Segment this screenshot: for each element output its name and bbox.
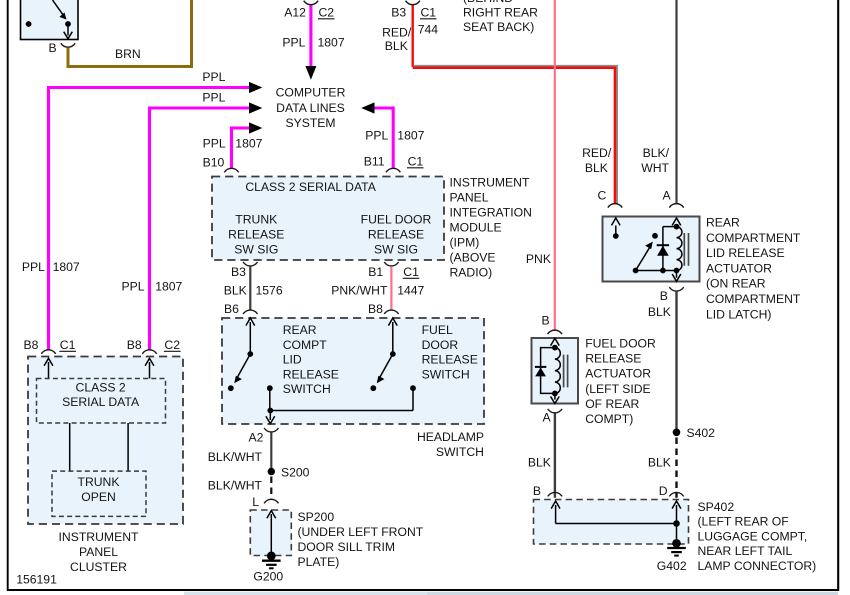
svg-text:(UNDER LEFT FRONT: (UNDER LEFT FRONT [298, 525, 424, 539]
svg-text:DOOR: DOOR [422, 338, 459, 352]
label RED/BLK (near pin C) [582, 146, 612, 175]
svg-text:RIGHT REAR: RIGHT REAR [463, 6, 538, 20]
connector bump B3 (IPM bottom) [243, 262, 257, 266]
svg-text:SWITCH: SWITCH [283, 382, 331, 396]
scrollbar strip bottom [184, 592, 838, 595]
fuel actuator input arrow [551, 338, 560, 347]
svg-text:B8: B8 [24, 338, 39, 352]
svg-text:LID: LID [283, 353, 302, 367]
svg-text:PPL: PPL [202, 70, 225, 84]
label SP200 (UNDER LEFT FRONT DOOR SILL TRIM PLATE) [298, 510, 424, 569]
wire from rear switch output [269, 388, 271, 410]
svg-text:B6: B6 [224, 302, 239, 316]
svg-text:SW SIG: SW SIG [374, 243, 418, 257]
svg-text:1807: 1807 [397, 129, 424, 143]
headlamp switch box [222, 318, 484, 424]
svg-text:PPL: PPL [22, 260, 45, 274]
label (BEHIND RIGHT REAR SEAT BACK) [463, 0, 538, 34]
svg-text:CLUSTER: CLUSTER [70, 560, 127, 574]
svg-text:PNK: PNK [526, 252, 551, 266]
svg-text:RELEASE: RELEASE [368, 228, 424, 242]
label BLK 1576 [224, 284, 283, 298]
label PPL 1807 (wire A12) [282, 36, 344, 50]
SP402 junction dot [673, 520, 680, 527]
actuator switch arm arrow [636, 242, 653, 271]
svg-text:B8: B8 [127, 338, 142, 352]
svg-text:PPL: PPL [282, 36, 305, 50]
SP402 ground node dot [672, 539, 681, 548]
svg-text:B10: B10 [203, 156, 225, 170]
svg-text:B1: B1 [368, 265, 383, 279]
SP402 bus wire [556, 523, 677, 525]
svg-text:LAMP CONNECTOR): LAMP CONNECTOR) [698, 559, 817, 573]
svg-text:A: A [663, 189, 672, 203]
connector bump B (SP402) [548, 492, 562, 496]
label REAR COMPT LID RELEASE SWITCH [283, 323, 339, 396]
svg-text:RED/: RED/ [582, 146, 612, 160]
svg-text:C1: C1 [408, 155, 424, 169]
svg-text:DATA LINES: DATA LINES [276, 101, 345, 115]
connector label C1 (underlined, IPM top) [407, 155, 424, 169]
svg-text:S402: S402 [687, 426, 716, 440]
svg-text:LID RELEASE: LID RELEASE [706, 246, 785, 260]
label HEADLAMP SWITCH [417, 430, 484, 459]
label FUEL DOOR RELEASE ACTUATOR (LEFT SIDE OF REAR COMPT) [585, 337, 656, 427]
pin B connector bump [61, 43, 75, 47]
svg-text:BLK: BLK [385, 39, 408, 53]
svg-text:1807: 1807 [235, 136, 262, 150]
svg-text:(ON REAR: (ON REAR [706, 277, 766, 291]
actuator node dot (pin C branch) [613, 233, 619, 239]
svg-text:TRUNK: TRUNK [78, 475, 120, 489]
svg-text:LUGGAGE COMPT,: LUGGAGE COMPT, [698, 529, 808, 543]
svg-text:1807: 1807 [155, 280, 182, 294]
IPC arrow to B8 C1 [44, 358, 53, 378]
svg-text:FUEL: FUEL [422, 323, 453, 337]
actuator output arrow (pin B) [672, 271, 681, 282]
fuel actuator output arrow [551, 393, 560, 403]
splice pack SP402 box [534, 500, 689, 545]
svg-text:D: D [659, 484, 668, 498]
svg-text:BRN: BRN [115, 47, 141, 61]
svg-text:744: 744 [418, 23, 439, 37]
diode bottom junction dot [660, 268, 666, 274]
connector bump B1 (IPM bottom) [384, 262, 398, 266]
svg-text:A2: A2 [249, 431, 264, 445]
label INSTRUMENT PANEL INTEGRATION MODULE (IPM) (ABOVE RADIO) [450, 175, 532, 279]
label PPL 1807 (wire B10) [203, 136, 263, 150]
actuator switch upper dot [652, 233, 658, 239]
actuator top wire [663, 226, 677, 228]
relay K1 : rear compartment lid release actuator box [603, 217, 700, 282]
svg-text:B: B [660, 289, 668, 303]
connector label C1 (underlined) [420, 6, 437, 20]
svg-text:RELEASE: RELEASE [585, 352, 641, 366]
wire BLK 1576 [249, 266, 251, 309]
connector bump B6 [243, 310, 257, 314]
connector bump L [264, 499, 278, 503]
svg-text:COMPT): COMPT) [585, 412, 633, 426]
svg-text:DOOR SILL TRIM: DOOR SILL TRIM [298, 540, 396, 554]
svg-text:RED/: RED/ [382, 26, 412, 40]
wire BLK/WHT from A2 to S200 [270, 432, 272, 468]
net FUEL DOOR RELEASE SW SIG [361, 213, 432, 257]
svg-text:RADIO): RADIO) [450, 265, 493, 279]
svg-text:B: B [49, 41, 57, 55]
rear compt lid release switch: input arrow [246, 318, 255, 354]
svg-text:BLK: BLK [224, 284, 247, 298]
wire from fuel switch output [412, 388, 414, 410]
svg-text:PPL: PPL [203, 136, 226, 150]
wire PPL 1807 from B11 C1 to computer data lines [361, 102, 393, 168]
svg-text:LID LATCH): LID LATCH) [706, 307, 771, 321]
svg-text:PANEL: PANEL [450, 190, 489, 204]
page border bottom [7, 589, 839, 591]
label INSTRUMENT PANEL CLUSTER [59, 530, 139, 574]
svg-text:C1: C1 [421, 6, 437, 20]
svg-text:COMPUTER: COMPUTER [276, 86, 346, 100]
SP200 ground node dot [267, 552, 276, 561]
wire PPL 1807 from B8 C1 to computer data lines (left) [49, 82, 263, 350]
svg-text:FUEL DOOR: FUEL DOOR [361, 213, 432, 227]
svg-text:B3: B3 [231, 265, 246, 279]
svg-text:BLK: BLK [585, 161, 608, 175]
wire PNK/WHT 1447 [390, 266, 392, 309]
fuel actuator bottom dot [552, 391, 558, 397]
svg-text:BLK: BLK [648, 305, 671, 319]
connector bump A (fuel actuator) [548, 409, 562, 413]
svg-text:G402: G402 [657, 559, 687, 573]
svg-text:INSTRUMENT: INSTRUMENT [59, 530, 139, 544]
svg-text:(ABOVE: (ABOVE [450, 250, 496, 264]
label FUEL DOOR RELEASE SWITCH [422, 323, 478, 381]
connector bump B8 (headlamp) [384, 310, 398, 314]
connector bump D [669, 492, 683, 496]
solenoid core lines (fuel actuator) [564, 355, 568, 388]
svg-text:PLATE): PLATE) [298, 555, 340, 569]
svg-text:SEAT BACK): SEAT BACK) [463, 20, 534, 34]
actuator switch pivot dot [633, 268, 639, 274]
fuel door release switch: input arrow [388, 318, 397, 354]
svg-text:B3: B3 [391, 6, 406, 20]
svg-text:RELEASE: RELEASE [228, 228, 284, 242]
node TRUNK OPEN (IPC inner box) [52, 471, 146, 516]
splice pack SP200 box [250, 510, 291, 556]
wire joining both switches [270, 410, 413, 412]
connector bump B8 C2 (IPC right) [142, 350, 156, 354]
connector bump A [669, 204, 683, 208]
connector bump B8 C1 (IPC left) [41, 350, 55, 354]
svg-text:COMPT: COMPT [283, 338, 328, 352]
rear compt lid release switch: contact dot [228, 385, 234, 391]
svg-text:SP402: SP402 [698, 500, 735, 514]
svg-text:TRUNK: TRUNK [235, 213, 277, 227]
fuel switch output contact dot [410, 385, 416, 391]
svg-text:1447: 1447 [397, 284, 424, 298]
connector label C2 (underlined, IPC) [164, 338, 181, 352]
switch contact dot left [26, 21, 32, 27]
connector bump B3 [406, 1, 420, 5]
svg-text:156191: 156191 [16, 573, 57, 587]
svg-text:SERIAL DATA: SERIAL DATA [62, 395, 140, 409]
wire IPC internal right [127, 423, 129, 471]
svg-text:MODULE: MODULE [450, 220, 502, 234]
fuel door release switch: arm arrow [377, 354, 393, 383]
node CLASS 2 SERIAL DATA (IPC inner box) [37, 379, 166, 424]
actuator bottom wire [636, 270, 677, 272]
svg-text:(LEFT SIDE: (LEFT SIDE [585, 382, 650, 396]
svg-text:CLASS 2: CLASS 2 [76, 381, 126, 395]
wire PPL 1807 from B8 C2 to computer data lines [150, 102, 263, 349]
svg-text:NEAR LEFT TAIL: NEAR LEFT TAIL [698, 544, 793, 558]
svg-text:ACTUATOR: ACTUATOR [706, 261, 772, 275]
svg-text:B11: B11 [364, 155, 385, 169]
svg-text:COMPARTMENT: COMPARTMENT [706, 292, 801, 306]
connector bump B10 [224, 168, 238, 172]
wire BLK/WHT (right, from top) [675, 0, 677, 203]
svg-text:SWITCH: SWITCH [422, 367, 470, 381]
label PPL 1807 (wire 2) [122, 280, 183, 294]
svg-text:C1: C1 [60, 338, 76, 352]
svg-text:S200: S200 [281, 466, 310, 480]
coil top dot [674, 224, 680, 230]
svg-text:INTEGRATION: INTEGRATION [450, 205, 532, 219]
fuel actuator top dot [552, 345, 558, 351]
svg-text:BLK: BLK [528, 456, 551, 470]
svg-text:A12: A12 [284, 6, 306, 20]
label RED/BLK (top) [382, 26, 412, 54]
svg-text:BLK/WHT: BLK/WHT [208, 479, 263, 493]
connector bump B11 [386, 168, 400, 172]
coil bottom dot [674, 268, 680, 274]
ground G402 [667, 548, 686, 556]
svg-text:REAR: REAR [706, 216, 740, 230]
svg-text:B: B [542, 314, 550, 328]
SP402 ground lead [676, 524, 678, 544]
fuel door release switch: contact dot [370, 385, 376, 391]
IPC arrow to B8 C2 [145, 358, 154, 378]
relay K2 : fuel door release actuator box [532, 338, 579, 404]
svg-text:INSTRUMENT: INSTRUMENT [450, 175, 530, 189]
junction dot (switch outputs) [267, 408, 273, 414]
page border right [837, 0, 839, 591]
label PNK/WHT 1447 [331, 284, 424, 298]
svg-text:PPL: PPL [365, 129, 388, 143]
svg-text:REAR: REAR [283, 323, 317, 337]
svg-text:HEADLAMP: HEADLAMP [417, 430, 484, 444]
svg-text:L: L [252, 495, 259, 509]
op-amp U1 : instrument panel integration module IPM box [212, 177, 444, 261]
svg-text:PNK/WHT: PNK/WHT [331, 284, 388, 298]
svg-text:PPL: PPL [122, 280, 145, 294]
svg-text:G200: G200 [253, 569, 283, 583]
svg-text:SW SIG: SW SIG [234, 243, 278, 257]
label PPL 1807 (wire B11) [365, 129, 424, 143]
instrument panel cluster box [28, 357, 183, 525]
label BLK/WHT (near pin A) [641, 146, 669, 175]
svg-text:RELEASE: RELEASE [283, 367, 339, 381]
output arrow to A2 [266, 411, 275, 424]
wire IPC internal left [69, 423, 71, 471]
node COMPUTER DATA LINES SYSTEM [276, 86, 346, 131]
SP402 right arrow [672, 501, 681, 524]
svg-text:B: B [533, 484, 541, 498]
svg-text:BLK/: BLK/ [643, 146, 670, 160]
ground G200 [262, 561, 281, 569]
wire PPL 1807 from B10 to computer data lines [232, 122, 263, 168]
solenoid core lines [684, 233, 688, 266]
splice S402 [673, 429, 681, 437]
wire RED/BLK 744 from B3 C1 [413, 5, 617, 203]
svg-text:OF REAR: OF REAR [585, 397, 639, 411]
svg-text:PPL: PPL [202, 90, 225, 104]
label REAR COMPARTMENT LID RELEASE ACTUATOR (ON REAR COMPARTMENT LID LATCH) [706, 216, 801, 322]
svg-text:CLASS 2 SERIAL DATA: CLASS 2 SERIAL DATA [245, 180, 376, 194]
switch contact dot right [65, 21, 71, 27]
svg-text:WHT: WHT [641, 161, 669, 175]
connector label C1 (underlined, B1) [403, 265, 420, 279]
rear compt lid release switch: arm arrow [234, 354, 250, 383]
svg-text:1807: 1807 [53, 260, 80, 274]
connector bump B (rear actuator) [669, 287, 683, 291]
wire BLK/WHT dashed to L [270, 477, 272, 500]
rear compt lid release switch: output contact dot [267, 385, 273, 391]
connector bump A2 [264, 428, 278, 432]
wire BLK from rear actuator B to S402 [675, 291, 677, 432]
svg-text:(IPM): (IPM) [450, 235, 480, 249]
inductor coil (rear actuator solenoid) [677, 227, 682, 271]
svg-text:SYSTEM: SYSTEM [285, 116, 335, 130]
svg-text:SP200: SP200 [298, 510, 335, 524]
diode D2 branch (fuel actuator) [535, 348, 555, 394]
inductor coil (fuel actuator solenoid) [555, 348, 560, 394]
SP200 internal arrow [267, 511, 276, 555]
net TRUNK RELEASE SW SIG [228, 213, 284, 257]
label SP402 (LEFT REAR OF LUGGAGE COMPT, NEAR LEFT TAIL LAMP CONNECTOR) [698, 500, 817, 573]
svg-text:FUEL DOOR: FUEL DOOR [585, 337, 656, 351]
courtesy lamp switch box (top left, cut off) [21, 0, 79, 40]
wire BRN [68, 0, 192, 67]
connector bump C [608, 204, 622, 208]
svg-text:COMPARTMENT: COMPARTMENT [706, 231, 801, 245]
svg-text:(LEFT REAR OF: (LEFT REAR OF [698, 515, 789, 529]
svg-text:BLK: BLK [648, 456, 671, 470]
svg-text:C: C [598, 189, 607, 203]
svg-text:OPEN: OPEN [81, 490, 116, 504]
svg-text:(BEHIND: (BEHIND [463, 0, 513, 5]
wire BLK from fuel actuator A to SP402 B [554, 413, 556, 498]
label PPL 1807 (wire 1) [22, 260, 80, 274]
splice S200 [268, 468, 275, 475]
wire PPL 1807 from A12 C2 to computer data lines [305, 5, 316, 80]
svg-text:ACTUATOR: ACTUATOR [585, 367, 651, 381]
svg-text:1807: 1807 [318, 36, 345, 50]
switch output arrow to pin B [64, 24, 73, 39]
svg-text:RELEASE: RELEASE [422, 353, 478, 367]
svg-text:A: A [543, 411, 552, 425]
connector label C2 (underlined) [318, 6, 335, 20]
connector bump B (fuel actuator) [548, 330, 562, 334]
wire BLK dashed from S402 to D [675, 438, 677, 498]
connector label C1 (underlined, IPC) [59, 338, 76, 352]
svg-text:1576: 1576 [256, 284, 283, 298]
switch arm arrow (diagonal) [53, 0, 67, 20]
actuator arrow to pin A [672, 218, 681, 227]
fuel door release switch: pivot dot [390, 351, 396, 357]
wire PNK [554, 0, 556, 330]
svg-text:B8: B8 [368, 302, 383, 316]
rear compt lid release switch: pivot dot [247, 351, 253, 357]
svg-text:BLK/WHT: BLK/WHT [208, 450, 263, 464]
diode D1 (rear actuator) [657, 227, 669, 271]
svg-text:SWITCH: SWITCH [436, 445, 484, 459]
actuator input arrow (pin C) [612, 218, 621, 236]
svg-text:C2: C2 [164, 338, 180, 352]
svg-text:C2: C2 [319, 6, 335, 20]
page border left [7, 0, 9, 590]
svg-text:PANEL: PANEL [79, 545, 118, 559]
SP402 left arrow [551, 501, 560, 524]
connector bump A12 [304, 1, 318, 5]
svg-text:C1: C1 [403, 265, 419, 279]
